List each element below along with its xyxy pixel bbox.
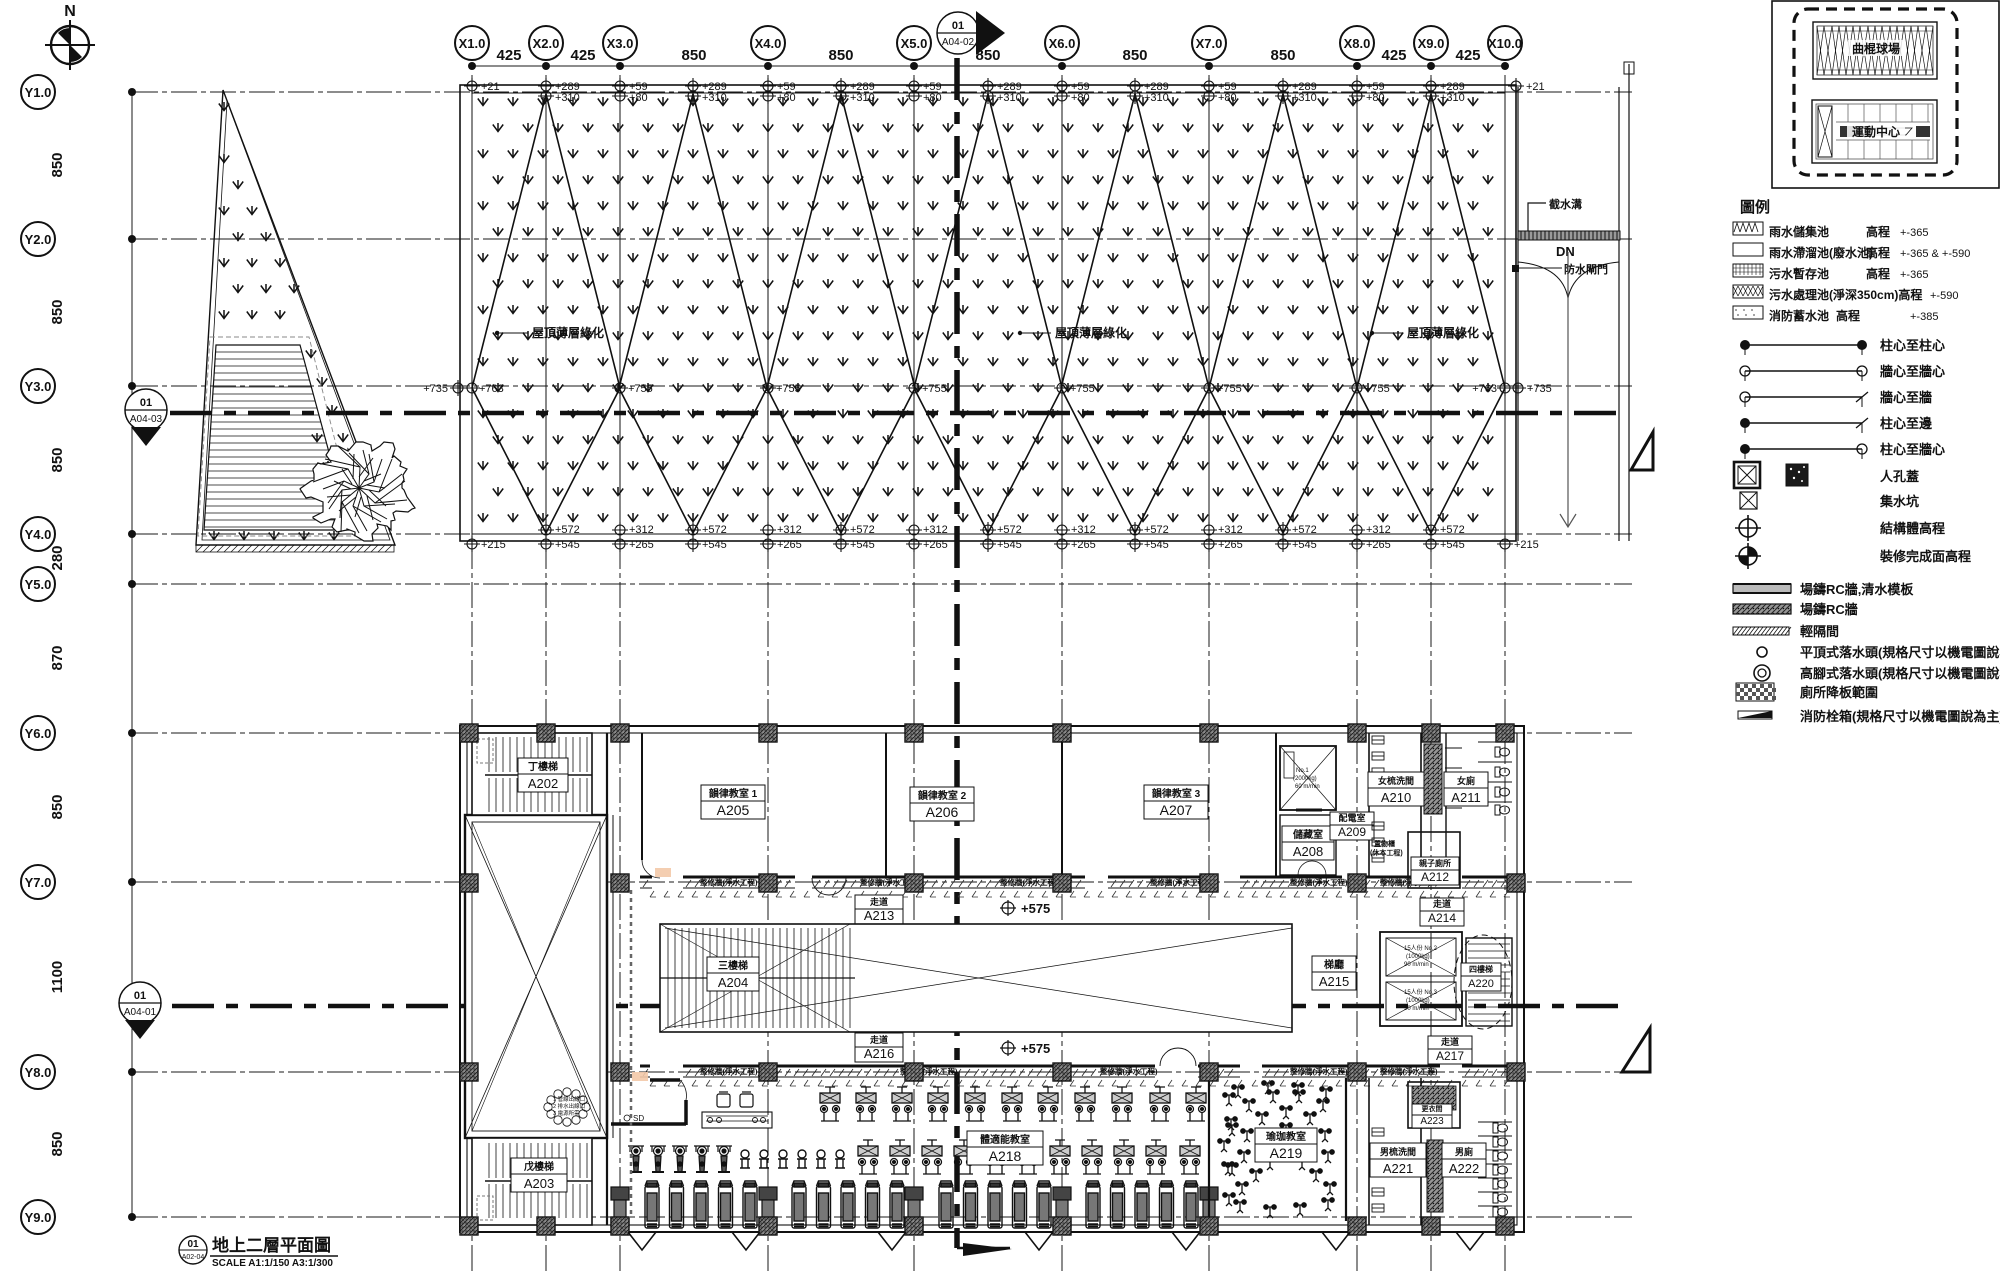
svg-text:+310: +310	[1144, 92, 1169, 104]
svg-text:+310: +310	[850, 92, 875, 104]
legend row 5 fire tank	[1733, 306, 1763, 319]
svg-text:配電室: 配電室	[1338, 812, 1365, 823]
revision cloud	[544, 1088, 590, 1126]
svg-text:瑜珈教室: 瑜珈教室	[1266, 1130, 1306, 1143]
grid Y bubbles	[21, 75, 136, 109]
svg-text:+-365 & +-590: +-365 & +-590	[1900, 248, 1970, 260]
svg-text:+310: +310	[997, 92, 1022, 104]
lower corridor wall	[640, 1065, 650, 1068]
central duct lower	[1427, 1140, 1443, 1212]
svg-text:850: 850	[49, 152, 66, 177]
svg-text:+763: +763	[479, 383, 504, 395]
svg-text:屋頂薄層綠化: 屋頂薄層綠化	[1055, 325, 1127, 340]
roof truss diamonds	[472, 94, 620, 533]
svg-text:850: 850	[828, 47, 853, 64]
svg-text:高程: 高程	[1866, 224, 1890, 239]
stair door arcs	[1518, 262, 1619, 298]
toilet stall partitions upper	[1445, 733, 1447, 876]
svg-text:整修牆(淨水工程): 整修牆(淨水工程)	[1290, 877, 1348, 887]
svg-text:850: 850	[1270, 47, 1295, 64]
svg-text:地上二層平面圖: 地上二層平面圖	[212, 1235, 331, 1255]
svg-text:+755: +755	[922, 383, 947, 395]
svg-text:污水處理池(淨深350cm)高程: 污水處理池(淨深350cm)高程	[1769, 287, 1922, 302]
columns at grid intersections	[460, 724, 1525, 1235]
svg-text:SCALE A1:1/150 A3:1/300: SCALE A1:1/150 A3:1/300	[212, 1258, 333, 1269]
legend row 1 rain storage	[1733, 222, 1763, 235]
svg-text:韻律教室 3: 韻律教室 3	[1152, 787, 1201, 800]
svg-text:曲棍球場: 曲棍球場	[1852, 41, 1900, 56]
roof bottom elevation row	[464, 522, 1539, 552]
svg-text:柱心至牆心: 柱心至牆心	[1880, 442, 1945, 457]
svg-text:A212: A212	[1421, 870, 1449, 884]
svg-text:A216: A216	[864, 1046, 894, 1061]
svg-text:更衣間: 更衣間	[1422, 1104, 1443, 1113]
svg-text:X10.0: X10.0	[1488, 36, 1522, 51]
svg-text:A202: A202	[528, 776, 558, 791]
svg-text:425: 425	[570, 47, 595, 64]
svg-text:+545: +545	[1292, 539, 1317, 551]
svg-text:01: 01	[952, 20, 964, 32]
label A218	[967, 1131, 1043, 1165]
svg-text:+80: +80	[629, 92, 648, 104]
svg-text:+575: +575	[1021, 901, 1050, 916]
svg-text:+310: +310	[1440, 92, 1465, 104]
svg-text:男梳洗間: 男梳洗間	[1380, 1146, 1416, 1157]
svg-text:+572: +572	[1292, 524, 1317, 536]
svg-text:A213: A213	[864, 908, 894, 923]
svg-text:+-385: +-385	[1910, 311, 1938, 323]
label A209	[1330, 812, 1374, 840]
label A222	[1442, 1143, 1486, 1177]
legend row 4 sewage treat	[1733, 285, 1763, 298]
svg-text:+80: +80	[1218, 92, 1237, 104]
building outer walls	[460, 726, 1524, 1232]
legend finish elev	[1735, 543, 1971, 569]
svg-text:Y6.0: Y6.0	[25, 726, 52, 741]
svg-text:女梳洗間: 女梳洗間	[1378, 775, 1414, 786]
svg-text:+21: +21	[481, 81, 500, 93]
plot grass	[209, 102, 380, 540]
room A210 lockers	[1372, 736, 1384, 862]
svg-text:平頂式落水頭(規格尺寸以機電圖說為主): 平頂式落水頭(規格尺寸以機電圖說為主)	[1800, 645, 2000, 660]
svg-text:整修牆(淨水工程): 整修牆(淨水工程)	[1100, 1066, 1158, 1076]
svg-text:X2.0: X2.0	[533, 36, 560, 51]
svg-text:+312: +312	[923, 524, 948, 536]
svg-text:高腳式落水頭(規格尺寸以機電圖說為主): 高腳式落水頭(規格尺寸以機電圖說為主)	[1800, 666, 2000, 681]
plot base hatch	[196, 545, 394, 552]
svg-text:防水閘門: 防水閘門	[1564, 262, 1608, 276]
svg-text:A203: A203	[524, 1176, 554, 1191]
svg-text:+572: +572	[850, 524, 875, 536]
service zone divider	[1276, 733, 1421, 876]
tree	[300, 442, 415, 541]
yoga marks	[1218, 1081, 1336, 1218]
svg-text:X3.0: X3.0	[607, 36, 634, 51]
svg-text:425: 425	[496, 47, 521, 64]
svg-text:X7.0: X7.0	[1196, 36, 1223, 51]
svg-text:男廁: 男廁	[1455, 1146, 1473, 1157]
legend wall-wall	[1740, 364, 1945, 381]
svg-text:消防栓箱(規格尺寸以機電圖說為主): 消防栓箱(規格尺寸以機電圖說為主)	[1800, 709, 2000, 724]
svg-text:+265: +265	[777, 539, 802, 551]
svg-text:A206: A206	[926, 804, 959, 820]
stair A220	[1466, 938, 1512, 1026]
svg-text:A210: A210	[1381, 790, 1411, 805]
svg-text:2 排水出線口: 2 排水出線口	[553, 1102, 585, 1110]
svg-text:+312: +312	[777, 524, 802, 536]
svg-text:Y3.0: Y3.0	[25, 379, 52, 394]
svg-text:牆心至牆: 牆心至牆	[1880, 390, 1932, 405]
svg-text:X4.0: X4.0	[755, 36, 782, 51]
svg-text:+763: +763	[1472, 383, 1497, 395]
svg-text:+572: +572	[1440, 524, 1465, 536]
svg-text:+80: +80	[1071, 92, 1090, 104]
svg-text:SD: SD	[633, 1114, 644, 1123]
svg-text:雨水滯溜池(廢水池): 雨水滯溜池(廢水池)	[1769, 245, 1873, 260]
grid X bubbles	[455, 26, 489, 70]
svg-text:A215: A215	[1319, 974, 1349, 989]
lower right changing rooms	[1369, 1078, 1421, 1225]
svg-text:+545: +545	[997, 539, 1022, 551]
svg-text:N: N	[64, 3, 76, 20]
section A04-02 vertical	[954, 58, 960, 1248]
svg-text:體適能教室: 體適能教室	[980, 1133, 1030, 1146]
legend structural elev	[1735, 515, 1945, 541]
legend toilet drop slab	[1736, 683, 1878, 701]
svg-text:圖例: 圖例	[1740, 198, 1770, 216]
hall label A215	[1312, 956, 1356, 990]
svg-text:A221: A221	[1383, 1161, 1413, 1176]
legend wall-edge	[1740, 390, 1932, 407]
svg-text:走道: 走道	[1432, 898, 1451, 909]
svg-text:三樓梯: 三樓梯	[718, 959, 748, 972]
stair A203 (bottom-left)	[472, 1138, 592, 1225]
left hall (void with X brace)	[465, 815, 607, 1138]
svg-text:截水溝: 截水溝	[1549, 197, 1582, 211]
svg-text:No.1: No.1	[1296, 768, 1309, 774]
svg-text:污水暫存池: 污水暫存池	[1769, 266, 1829, 281]
svg-text:儲藏室: 儲藏室	[1292, 828, 1323, 841]
svg-text:Y9.0: Y9.0	[25, 1210, 52, 1225]
svg-text:+755: +755	[1365, 383, 1390, 395]
svg-text:+545: +545	[555, 539, 580, 551]
section A04-03 horizontal	[170, 411, 1625, 416]
svg-text:A207: A207	[1160, 802, 1193, 818]
svg-text:(休本工程): (休本工程)	[1370, 848, 1403, 857]
svg-text:A208: A208	[1293, 844, 1323, 859]
svg-text:870: 870	[49, 645, 66, 670]
north arrow	[45, 3, 95, 70]
yoga room walls	[1208, 1078, 1210, 1221]
svg-text:雨水儲集池: 雨水儲集池	[1769, 224, 1829, 239]
svg-text:裝修完成面高程: 裝修完成面高程	[1879, 549, 1971, 564]
svg-text:A209: A209	[1338, 825, 1366, 839]
svg-text:A218: A218	[989, 1148, 1022, 1164]
label A204	[707, 957, 759, 991]
legend row 2 rain detention	[1733, 243, 1763, 256]
svg-text:01: 01	[140, 397, 152, 409]
svg-text:15人份 No.2: 15人份 No.2	[1404, 944, 1438, 952]
svg-text:整修牆(淨水工程): 整修牆(淨水工程)	[1290, 1066, 1348, 1076]
room A208	[1280, 815, 1336, 875]
grid Y lines	[132, 91, 1632, 93]
svg-text:+265: +265	[629, 539, 654, 551]
door leaf tints	[655, 868, 671, 877]
svg-text:+735: +735	[1527, 383, 1552, 395]
svg-text:場鑄RC牆,清水模板: 場鑄RC牆,清水模板	[1800, 582, 1914, 597]
roof column lines	[545, 93, 547, 534]
roof right strip	[1518, 64, 1629, 541]
svg-text:60 m/min: 60 m/min	[1295, 784, 1320, 790]
svg-text:+265: +265	[1366, 539, 1391, 551]
svg-text:+80: +80	[777, 92, 796, 104]
legend light partition	[1733, 624, 1839, 639]
legend RC wall A	[1733, 582, 1914, 597]
section A04-01 horizontal	[172, 1004, 1625, 1009]
svg-text:戊樓梯: 戊樓梯	[523, 1160, 554, 1173]
stair A202 (top-left)	[472, 733, 592, 815]
svg-text:+572: +572	[1144, 524, 1169, 536]
label A203	[511, 1158, 567, 1192]
roof outline	[460, 85, 1516, 541]
svg-text:425: 425	[1455, 47, 1480, 64]
svg-text:+575: +575	[1021, 1041, 1050, 1056]
svg-text:梯廳: 梯廳	[1324, 958, 1344, 971]
roof top elevation row	[464, 78, 1545, 104]
svg-text:+310: +310	[702, 92, 727, 104]
svg-text:+755: +755	[628, 383, 653, 395]
label A219	[1255, 1128, 1317, 1162]
treadmill row	[611, 1181, 1218, 1228]
svg-text:人孔蓋: 人孔蓋	[1880, 469, 1919, 484]
svg-text:X1.0: X1.0	[459, 36, 486, 51]
room labels A205 A206 A207	[701, 785, 765, 819]
svg-text:丁樓梯: 丁樓梯	[528, 760, 558, 773]
svg-text:+80: +80	[1366, 92, 1385, 104]
svg-text:+310: +310	[1292, 92, 1317, 104]
legend row 3 sewage hold	[1733, 264, 1763, 277]
svg-text:整修牆(淨水工程): 整修牆(淨水工程)	[700, 1066, 758, 1076]
svg-text:整修牆(淨水工程): 整修牆(淨水工程)	[1150, 877, 1208, 887]
svg-text:+545: +545	[702, 539, 727, 551]
svg-text:走道: 走道	[869, 1034, 888, 1045]
svg-text:廁所降板範圍: 廁所降板範圍	[1800, 685, 1878, 700]
gutter 截水溝	[1518, 231, 1620, 240]
svg-text:Y5.0: Y5.0	[25, 577, 52, 592]
elevator bank	[1380, 932, 1462, 1026]
svg-text:+265: +265	[1218, 539, 1243, 551]
grid X lines	[471, 75, 473, 1272]
+575 marks	[1000, 900, 1050, 916]
svg-text:850: 850	[681, 47, 706, 64]
svg-text:高程: 高程	[1866, 245, 1890, 260]
svg-text:+545: +545	[850, 539, 875, 551]
svg-text:A204: A204	[718, 975, 748, 990]
label A221	[1372, 1128, 1384, 1212]
svg-text:走道: 走道	[1440, 1036, 1459, 1047]
elevator No.1	[1280, 746, 1336, 810]
svg-text:A217: A217	[1436, 1049, 1464, 1063]
svg-text:韻律教室 1: 韻律教室 1	[709, 787, 758, 800]
grid top connector	[472, 65, 1505, 67]
svg-text:(2000kg): (2000kg)	[1293, 776, 1317, 782]
formwork marks under walls	[650, 891, 1510, 1086]
svg-text:A211: A211	[1451, 790, 1480, 805]
plot triangle	[196, 90, 395, 545]
svg-text:+312: +312	[1071, 524, 1096, 536]
svg-text:(1000kg): (1000kg)	[1406, 954, 1430, 960]
svg-text:A219: A219	[1270, 1145, 1303, 1161]
room A212	[1408, 832, 1460, 888]
gym bike row	[628, 1140, 1200, 1174]
svg-text:運動中心: 運動中心	[1852, 124, 1900, 139]
svg-text:+-365: +-365	[1900, 227, 1928, 239]
svg-text:+312: +312	[1366, 524, 1391, 536]
svg-text:+755: +755	[776, 383, 801, 395]
svg-text:850: 850	[49, 447, 66, 472]
svg-text:280: 280	[49, 545, 66, 570]
svg-text:3 電源所需: 3 電源所需	[553, 1109, 580, 1117]
svg-text:X9.0: X9.0	[1418, 36, 1445, 51]
svg-text:韻律教室 2: 韻律教室 2	[918, 789, 967, 802]
svg-text:Y7.0: Y7.0	[25, 875, 52, 890]
stair down line	[1560, 252, 1576, 527]
interior partition walls upper rooms	[606, 733, 608, 1225]
svg-text:850: 850	[49, 299, 66, 324]
svg-text:+572: +572	[702, 524, 727, 536]
label A202	[518, 758, 568, 792]
svg-text:A205: A205	[717, 802, 750, 818]
upper corridor wall	[640, 876, 652, 879]
legend flat drain	[1757, 645, 2000, 660]
svg-text:+572: +572	[997, 524, 1022, 536]
svg-text:+755: +755	[1217, 383, 1242, 395]
lobby strip wall	[641, 733, 643, 860]
key plan frame	[1772, 1, 1999, 188]
svg-text:+545: +545	[1440, 539, 1465, 551]
svg-text:A04-01: A04-01	[124, 1007, 157, 1018]
svg-text:+545: +545	[1144, 539, 1169, 551]
svg-text:集水坑: 集水坑	[1879, 494, 1919, 509]
dashed service line	[630, 890, 633, 1215]
svg-text:+-590: +-590	[1930, 290, 1958, 302]
legend col-wall	[1740, 442, 1945, 459]
svg-text:四樓梯: 四樓梯	[1469, 964, 1493, 974]
svg-text:X6.0: X6.0	[1049, 36, 1076, 51]
svg-text:850: 850	[49, 794, 66, 819]
svg-text:850: 850	[49, 1131, 66, 1156]
svg-text:Y4.0: Y4.0	[25, 527, 52, 542]
svg-text:屋頂薄層綠化: 屋頂薄層綠化	[1407, 325, 1479, 340]
svg-text:1 管線出線口: 1 管線出線口	[553, 1095, 585, 1103]
roof greening marks	[478, 97, 1478, 106]
svg-text:A04-03: A04-03	[130, 414, 163, 425]
svg-text:A02-04: A02-04	[182, 1254, 205, 1261]
svg-text:整修牆(淨水工程): 整修牆(淨水工程)	[1000, 877, 1058, 887]
svg-text:+265: +265	[923, 539, 948, 551]
roof mid elevation row	[423, 380, 1552, 396]
svg-text:場鑄RC牆: 場鑄RC牆	[1800, 602, 1858, 617]
svg-text:輕隔間: 輕隔間	[1800, 624, 1839, 639]
svg-text:+755: +755	[1070, 383, 1095, 395]
legend manhole	[1734, 462, 1919, 488]
svg-text:850: 850	[1122, 47, 1147, 64]
key plan hockey field	[1813, 22, 1937, 79]
svg-text:+312: +312	[1218, 524, 1243, 536]
svg-text:A214: A214	[1428, 911, 1456, 925]
svg-text:A220: A220	[1468, 978, 1494, 990]
svg-text:+80: +80	[923, 92, 942, 104]
svg-text:+735: +735	[423, 383, 448, 395]
svg-text:90 m/min: 90 m/min	[1404, 962, 1429, 968]
svg-text:A223: A223	[1420, 1116, 1444, 1127]
svg-text:90 m/min: 90 m/min	[1404, 1006, 1429, 1012]
central stair A204 + escalator void	[660, 924, 1292, 1032]
svg-text:柱心至邊: 柱心至邊	[1880, 416, 1933, 431]
svg-text:+265: +265	[1071, 539, 1096, 551]
legend sump	[1740, 492, 1919, 509]
svg-text:置物櫃: 置物櫃	[1374, 839, 1395, 848]
gym machine row 1	[820, 1087, 1206, 1121]
svg-text:+310: +310	[555, 92, 580, 104]
svg-text:高程: 高程	[1866, 266, 1890, 281]
waterproof gate 防水閘門	[1512, 265, 1519, 272]
svg-text:X8.0: X8.0	[1344, 36, 1371, 51]
ramp	[204, 345, 350, 530]
legend col-col	[1740, 338, 1945, 355]
legend RC wall B	[1733, 602, 1858, 617]
legend hydrant	[1738, 709, 2000, 724]
svg-text:Y2.0: Y2.0	[25, 232, 52, 247]
svg-text:牆心至牆心: 牆心至牆心	[1880, 364, 1945, 379]
gym reception room walls	[650, 1078, 680, 1082]
svg-text:親子廁所: 親子廁所	[1419, 858, 1451, 868]
svg-text:+-365: +-365	[1900, 269, 1928, 281]
svg-text:1100: 1100	[49, 961, 66, 994]
center stall duct	[1424, 744, 1442, 814]
svg-text:+21: +21	[1526, 81, 1545, 93]
room A211 toilets	[1444, 772, 1488, 806]
svg-text:高程: 高程	[1836, 308, 1860, 323]
toilet stall partitions lower	[1478, 1122, 1512, 1206]
gym reception desk	[702, 1112, 772, 1128]
corridor A214	[1420, 898, 1464, 926]
svg-text:女廁: 女廁	[1457, 775, 1475, 786]
svg-text:01: 01	[187, 1239, 199, 1250]
bottom door V marks	[628, 1232, 656, 1250]
svg-text:整修牆(淨水工程): 整修牆(淨水工程)	[700, 877, 758, 887]
title block	[179, 1235, 338, 1269]
svg-text:消防蓄水池: 消防蓄水池	[1769, 308, 1829, 323]
room A22x upper	[1408, 1082, 1460, 1128]
svg-text:+572: +572	[555, 524, 580, 536]
svg-text:425: 425	[1381, 47, 1406, 64]
svg-text:01: 01	[134, 990, 146, 1002]
grid left connector	[131, 92, 133, 1217]
svg-text:整修牆(淨水工程): 整修牆(淨水工程)	[1380, 1066, 1438, 1076]
svg-text:15人份 No.3: 15人份 No.3	[1404, 988, 1438, 996]
svg-text:A04-02: A04-02	[942, 37, 975, 48]
svg-text:(1000kg): (1000kg)	[1406, 998, 1430, 1004]
key plan sports centre	[1812, 100, 1937, 163]
svg-text:A222: A222	[1449, 1161, 1479, 1176]
svg-text:Y8.0: Y8.0	[25, 1065, 52, 1080]
svg-text:+215: +215	[481, 539, 506, 551]
corridor labels	[855, 895, 903, 924]
svg-text:柱心至柱心: 柱心至柱心	[1880, 338, 1945, 353]
svg-text:+312: +312	[629, 524, 654, 536]
svg-text:X5.0: X5.0	[901, 36, 928, 51]
